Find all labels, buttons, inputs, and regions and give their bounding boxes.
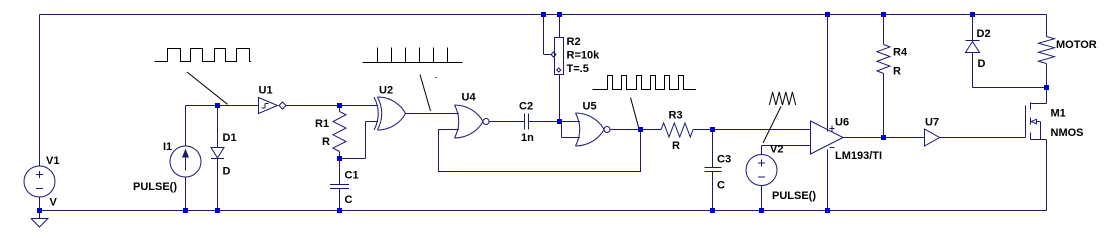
nmos M1 channel segments bbox=[1030, 103, 1032, 140]
wire V1 column bbox=[39, 15, 41, 211]
buffer U7 bbox=[925, 129, 940, 146]
waveform annotation comb near U2 bbox=[363, 48, 463, 63]
wire C3 column bbox=[712, 130, 714, 211]
svg-text:U4: U4 bbox=[462, 92, 477, 104]
junction C2 U5 bbox=[557, 119, 562, 124]
svg-text:R=10k: R=10k bbox=[567, 50, 601, 62]
wire top rail bbox=[40, 14, 1047, 16]
svg-text:R: R bbox=[672, 140, 680, 152]
dot mark near U2 pointer bbox=[436, 77, 437, 79]
svg-text:R1: R1 bbox=[315, 118, 329, 130]
junction node D1 top bbox=[215, 103, 220, 108]
wire V2 bottom bbox=[761, 186, 763, 211]
junction top rail R4 bbox=[881, 12, 886, 17]
svg-text:U1: U1 bbox=[259, 85, 273, 97]
wire U2 lower input bbox=[340, 122, 379, 159]
wire bottom rail bbox=[40, 210, 1047, 212]
junction top rail D2 bbox=[970, 12, 975, 17]
nor gate U4 bbox=[455, 105, 459, 138]
svg-text:MOTOR: MOTOR bbox=[1056, 39, 1097, 51]
svg-text:PULSE(): PULSE() bbox=[772, 190, 816, 202]
wire R3 to C3 junction bbox=[693, 129, 713, 131]
svg-text:U5: U5 bbox=[583, 101, 597, 113]
svg-text:R3: R3 bbox=[669, 110, 683, 122]
motor winding bbox=[1039, 37, 1055, 64]
wire C1 column bbox=[339, 159, 341, 211]
capacitor C3 bbox=[705, 168, 722, 172]
junction R3 C3 bbox=[710, 127, 715, 132]
svg-text:R2: R2 bbox=[567, 36, 581, 48]
svg-text:U2: U2 bbox=[379, 85, 393, 97]
svg-text:R: R bbox=[893, 66, 901, 78]
wire D2 column bbox=[972, 15, 974, 88]
junction bottom U6 supply bbox=[825, 208, 830, 213]
junction top rail R2 body bbox=[557, 12, 562, 17]
comparator U6 bbox=[811, 121, 844, 154]
svg-text:C: C bbox=[345, 194, 353, 206]
xor gate U2 bbox=[374, 97, 378, 130]
wire junction to U5 inputs bbox=[560, 122, 581, 138]
waveform annotation pulses near U5 bbox=[593, 76, 697, 90]
junction drain node bbox=[1044, 85, 1049, 90]
svg-text:1n: 1n bbox=[521, 132, 534, 144]
svg-text:I1: I1 bbox=[163, 141, 172, 153]
junction bottom I1 bbox=[183, 208, 188, 213]
wire U6 supply top bbox=[827, 15, 829, 132]
svg-text:U7: U7 bbox=[925, 117, 939, 129]
resistor R1 bbox=[333, 112, 346, 152]
junction bottom C1 bbox=[337, 208, 342, 213]
junction U6 output R4 bbox=[881, 135, 886, 140]
svg-text:LM193/TI: LM193/TI bbox=[835, 150, 882, 162]
svg-text:NMOS: NMOS bbox=[1051, 127, 1084, 139]
svg-text:C3: C3 bbox=[717, 154, 731, 166]
svg-text:M1: M1 bbox=[1051, 108, 1066, 120]
wire drain connection bbox=[1046, 88, 1048, 104]
svg-text:V1: V1 bbox=[46, 155, 59, 167]
resistor R3 bbox=[661, 123, 693, 137]
junction R1 top bbox=[337, 103, 342, 108]
junction U5 output feedback bbox=[638, 127, 643, 132]
pointer line to node before U1 bbox=[187, 72, 228, 104]
nmos M1 gate bar bbox=[1025, 106, 1027, 138]
wire U6 output to U7 bbox=[843, 137, 925, 139]
svg-text:D: D bbox=[978, 58, 986, 70]
current source I1 bbox=[170, 146, 201, 177]
wire D1 column bbox=[217, 106, 219, 211]
nor gate U5 bbox=[576, 113, 580, 146]
junction top rail U6 supply bbox=[825, 12, 830, 17]
svg-text:PULSE(): PULSE() bbox=[133, 181, 177, 193]
wire U2 output to U4 input bbox=[406, 113, 460, 115]
wire R1 stubs bbox=[339, 106, 341, 159]
wire U2 upper input bbox=[340, 105, 379, 107]
wire V2 top to U6 minus input bbox=[762, 146, 811, 155]
junction bottom V1 bbox=[37, 208, 42, 213]
svg-text:R4: R4 bbox=[893, 47, 908, 59]
wire C2 to junction bbox=[529, 121, 560, 123]
junction bottom V2 bbox=[759, 208, 764, 213]
wire I1 bottom bbox=[185, 177, 187, 211]
capacitor C1 bbox=[330, 185, 349, 189]
svg-text:V: V bbox=[50, 197, 58, 209]
junction top rail R2 wiper bbox=[541, 12, 546, 17]
nmos M1 source bbox=[1031, 139, 1047, 141]
nmos M1 body arrow bbox=[1031, 119, 1041, 139]
voltage source V2 bbox=[746, 155, 777, 186]
wire U5 output to R3 bbox=[610, 129, 661, 131]
wire R2 body column bbox=[559, 15, 561, 122]
wire junction to U6 plus input bbox=[713, 129, 811, 131]
inverter U1 bbox=[259, 98, 278, 114]
pointer line to V2 node bbox=[763, 107, 781, 144]
svg-text:D: D bbox=[223, 166, 231, 178]
junction bottom C3 bbox=[710, 208, 715, 213]
svg-text:C: C bbox=[717, 180, 725, 192]
ground flag bbox=[31, 211, 48, 228]
diode D2 bbox=[966, 41, 980, 53]
wire D2 to drain node bbox=[973, 87, 1047, 89]
pointer line to U5 output bbox=[631, 98, 639, 128]
wire feedback loop U5 to U4 bbox=[439, 130, 641, 172]
wire I1 top bbox=[186, 106, 259, 147]
voltage source V1 bbox=[24, 166, 55, 197]
waveform annotation triangle wave near V2 bbox=[769, 92, 795, 105]
wire U6 supply bottom bbox=[827, 150, 829, 211]
potentiometer R2 bbox=[555, 38, 564, 75]
nmos M1 drain bbox=[1031, 103, 1047, 105]
wire U7 output to M1 gate bbox=[940, 137, 1026, 139]
wire R2 wiper column bbox=[544, 15, 552, 55]
wire motor column bbox=[1046, 15, 1048, 88]
svg-text:D2: D2 bbox=[977, 28, 991, 40]
wire U1 output bbox=[286, 105, 340, 107]
resistor R4 bbox=[877, 45, 890, 74]
junction R1 bottom bbox=[337, 156, 342, 161]
pointer line to U2 output bbox=[420, 75, 431, 112]
wire source to bottom rail bbox=[1046, 140, 1048, 211]
waveform annotation square wave near U1 bbox=[155, 49, 252, 62]
junction bottom D1 bbox=[215, 208, 220, 213]
wire U4 output to C2 bbox=[489, 121, 525, 123]
svg-text:R: R bbox=[322, 136, 330, 148]
diode D1 bbox=[211, 148, 224, 159]
svg-text:C2: C2 bbox=[519, 101, 533, 113]
capacitor C2 bbox=[525, 114, 529, 130]
wire R4 column bbox=[883, 15, 885, 138]
svg-text:V2: V2 bbox=[770, 144, 783, 156]
svg-text:T=.5: T=.5 bbox=[567, 63, 589, 75]
svg-text:D1: D1 bbox=[223, 132, 237, 144]
svg-text:C1: C1 bbox=[345, 170, 359, 182]
svg-text:U6: U6 bbox=[835, 117, 849, 129]
